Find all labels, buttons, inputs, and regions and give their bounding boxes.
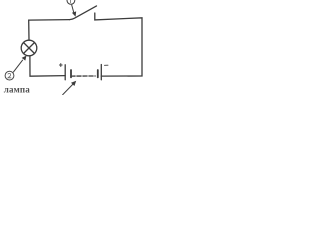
svg-text:лампа: лампа [4,85,30,95]
